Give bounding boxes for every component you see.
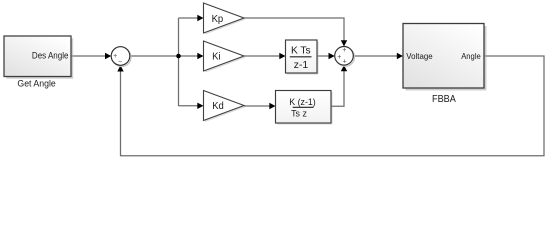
svg-text:K (z-1): K (z-1)	[289, 97, 315, 107]
svg-text:K Ts: K Ts	[291, 46, 311, 57]
svg-text:Angle: Angle	[461, 52, 481, 61]
svg-text:+: +	[113, 53, 117, 60]
svg-text:Ki: Ki	[212, 52, 221, 63]
svg-text:Kd: Kd	[212, 101, 224, 112]
svg-text:FBBA: FBBA	[432, 94, 456, 105]
svg-text:+: +	[337, 54, 341, 61]
svg-text:−: −	[118, 58, 122, 65]
svg-text:Des Angle: Des Angle	[32, 51, 69, 61]
svg-text:Kp: Kp	[212, 14, 224, 25]
svg-text:Voltage: Voltage	[406, 52, 433, 61]
svg-text:Ts z: Ts z	[291, 109, 307, 120]
svg-text:Get Angle: Get Angle	[17, 78, 55, 89]
svg-text:z-1: z-1	[294, 60, 309, 71]
svg-text:+: +	[343, 59, 347, 66]
svg-text:+: +	[342, 47, 346, 54]
